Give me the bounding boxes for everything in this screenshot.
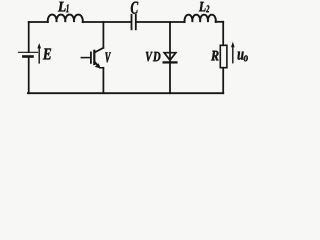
label VD — [146, 52, 161, 61]
wire bottom rail — [28, 92, 223, 94]
label L2 — [199, 2, 210, 12]
label V — [105, 52, 111, 62]
label E — [43, 49, 51, 60]
label R — [211, 51, 219, 61]
wire top rail between C and L2 — [137, 21, 185, 23]
resistor R body — [220, 45, 227, 67]
wire left branch lower — [28, 58, 30, 94]
wire right branch upper — [222, 22, 224, 46]
wire top rail left segment — [29, 21, 48, 23]
diode VD cathode bar — [164, 61, 177, 63]
wire V branch upper — [102, 22, 104, 48]
arrow u_o — [231, 42, 235, 63]
capacitor C left plate — [131, 15, 133, 29]
wire V branch lower — [102, 68, 104, 93]
label u_o — [238, 52, 248, 62]
wire top rail between L1 and C — [83, 21, 131, 23]
label C — [131, 2, 138, 14]
wire right branch lower — [222, 68, 224, 94]
arrow E — [37, 43, 41, 63]
wire top rail right segment — [216, 21, 224, 23]
battery E long plate — [19, 51, 38, 53]
diode VD triangle — [164, 53, 176, 61]
label L1 — [58, 2, 69, 12]
inductor L1 — [48, 15, 83, 22]
capacitor C right plate — [135, 15, 137, 29]
inductor L2 — [185, 15, 216, 22]
transistor V IGBT symbol — [81, 48, 103, 69]
battery E short thick plate — [23, 55, 32, 58]
wire VD branch — [169, 22, 171, 93]
wire left branch upper — [28, 22, 30, 52]
